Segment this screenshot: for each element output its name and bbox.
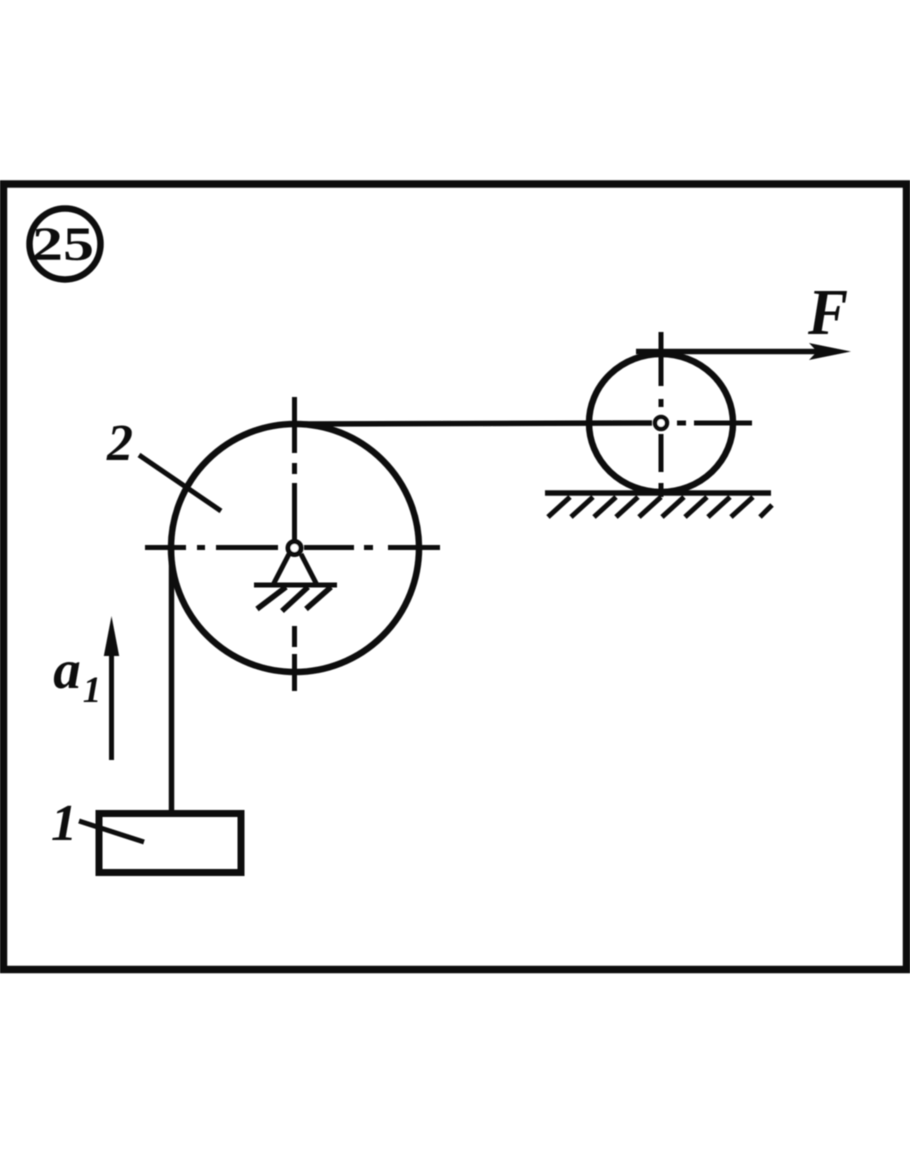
pin hub pulley 2 (288, 542, 301, 555)
support hatching (257, 587, 331, 611)
pulley 2 (large) (171, 424, 419, 672)
pulley (small, right) (589, 354, 733, 492)
acceleration a1 arrowhead (104, 616, 119, 656)
wire rope top horizontal (293, 423, 652, 424)
svg-text:F: F (807, 276, 848, 349)
label 1 leader line (79, 821, 144, 842)
block 1 (mass) (99, 814, 241, 873)
svg-text:1: 1 (51, 795, 77, 852)
centerline horizontal pulley 2 (145, 545, 440, 550)
acceleration a1 arrow shaft (109, 652, 114, 760)
centerline vertical pulley 2 (292, 397, 297, 691)
centerline vertical small pulley (659, 332, 664, 497)
centerline horizontal small pulley right (677, 421, 752, 426)
pivot support bracket under pin (254, 554, 337, 585)
label 2 leader line (139, 455, 221, 511)
wire rope left vertical (169, 548, 175, 813)
problem number badge circle (30, 209, 101, 280)
svg-text:1: 1 (83, 670, 102, 711)
force F line (636, 349, 828, 355)
frame border (4, 184, 907, 970)
svg-text:a: a (53, 639, 81, 700)
svg-text:25: 25 (32, 218, 94, 271)
svg-text:2: 2 (106, 415, 133, 472)
ground line under small pulley (545, 490, 771, 496)
pin hub small pulley (655, 417, 667, 429)
force F arrowhead (809, 343, 851, 360)
ground hatching (548, 497, 772, 517)
